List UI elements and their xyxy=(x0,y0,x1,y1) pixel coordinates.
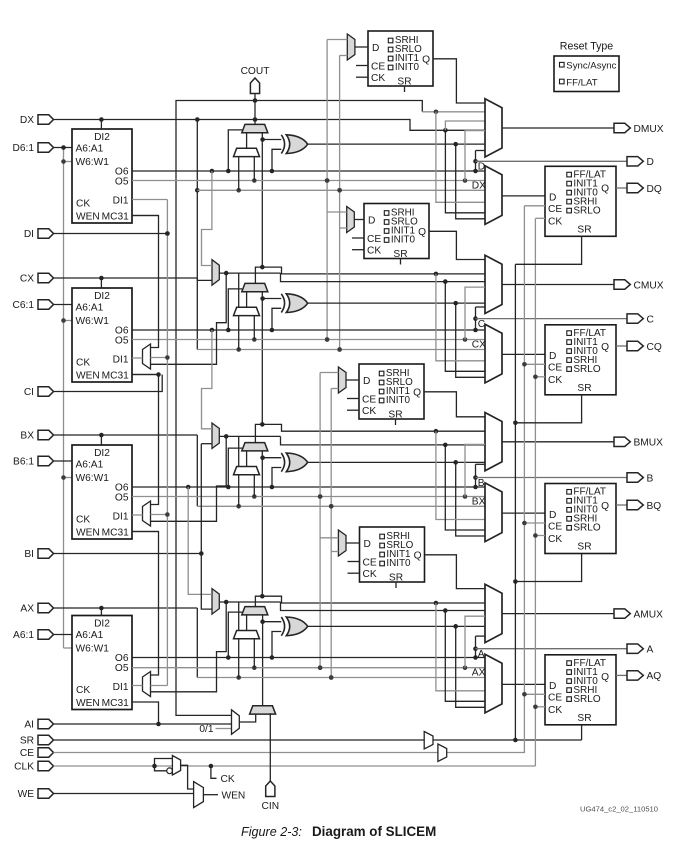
carry chain output pin COUT xyxy=(241,66,270,94)
wire FF5 C Q to output mux xyxy=(429,231,485,259)
svg-text:SRLO: SRLO xyxy=(573,523,600,534)
svg-text:D: D xyxy=(368,215,375,226)
carry chain input pin CIN xyxy=(262,781,280,812)
svg-text:W6:W1: W6:W1 xyxy=(76,316,110,327)
wire A output line xyxy=(476,648,628,650)
wire DX bypass drop xyxy=(195,120,212,281)
svg-text:D: D xyxy=(549,351,556,362)
svg-text:O5: O5 xyxy=(115,493,129,504)
svg-text:D: D xyxy=(549,510,556,521)
svg-text:CE: CE xyxy=(548,363,562,374)
svg-text:MC31: MC31 xyxy=(102,371,130,382)
svg-text:DI: DI xyxy=(24,229,34,240)
svg-text:AQ: AQ xyxy=(647,671,662,682)
svg-text:WEN: WEN xyxy=(76,528,100,539)
svg-text:SRLO: SRLO xyxy=(573,364,600,375)
wire FF5 C CK stub xyxy=(352,249,364,251)
svg-text:CK: CK xyxy=(76,358,90,369)
input pin AX xyxy=(20,603,53,614)
wire FF5 C mux input stubs xyxy=(327,212,347,228)
wire carry chain link 2 xyxy=(255,292,485,443)
flip-flop/latch C (FF/LAT INIT1 INIT0 SRHI SRLO) xyxy=(545,325,616,395)
output pin AQ xyxy=(627,671,661,683)
flip-flop FF5 A (SRHI SRLO INIT1 INIT0) xyxy=(360,527,425,583)
output pin D xyxy=(627,157,654,169)
svg-text:D6:1: D6:1 xyxy=(12,143,34,154)
wire XOR D output xyxy=(307,142,485,219)
svg-text:CK: CK xyxy=(363,569,377,580)
node carry-in tap to XOR A xyxy=(260,619,281,624)
svg-text:CX: CX xyxy=(472,340,486,351)
svg-text:Q: Q xyxy=(422,54,430,65)
svg-text:WEN: WEN xyxy=(222,791,246,802)
svg-text:CK: CK xyxy=(362,406,376,417)
wire MC31 cascade into DI1 mux C xyxy=(132,216,159,348)
svg-text:Q: Q xyxy=(601,672,609,683)
svg-text:SR: SR xyxy=(389,572,403,583)
node carry-in tap to XOR C xyxy=(260,296,281,301)
wire CX bypass row xyxy=(197,347,485,352)
wire O6 tap riser into write mux B xyxy=(202,328,215,429)
svg-text:CE: CE xyxy=(20,748,34,759)
wire FF5 A CK stub xyxy=(348,572,360,574)
wire carry staircase riser into FF-in mux A xyxy=(436,603,485,691)
svg-text:0/1: 0/1 xyxy=(199,724,213,735)
output pin A xyxy=(627,644,654,656)
wire SR riser xyxy=(513,236,581,740)
svg-text:CQ: CQ xyxy=(647,342,662,353)
wire write-select tap riser into FF-in mux C xyxy=(445,282,485,372)
wire MC31 output B xyxy=(132,531,159,533)
wire O6 D xyxy=(132,169,485,174)
svg-text:DI1: DI1 xyxy=(113,195,129,206)
wire CMUX output xyxy=(502,284,614,286)
wire MC31 cascade into DI1 mux B xyxy=(132,375,159,505)
mux output select BMUX xyxy=(485,413,502,471)
svg-text:SR: SR xyxy=(397,76,411,87)
wire AX bypass drop xyxy=(196,608,198,678)
svg-text:DX: DX xyxy=(472,180,486,191)
wire carry link CYINIT to MUXCY A xyxy=(262,615,264,706)
wire write-select tap riser into FF-in mux B xyxy=(445,445,485,530)
wire BX bypass row xyxy=(197,504,485,509)
wire W6:W1 shared write-address bus xyxy=(61,145,72,648)
svg-text:Q: Q xyxy=(413,387,421,398)
wire FF B Q to BQ xyxy=(616,504,627,506)
XOR gate D xyxy=(281,135,307,154)
node carry-in tap to XOR B xyxy=(260,455,281,460)
carry mux CYINIT xyxy=(250,706,276,714)
wire XOR A output xyxy=(307,624,485,707)
wire O5 riser into DMUX xyxy=(465,131,485,181)
wire D6:1 to LUT A6:A1 xyxy=(54,147,73,149)
wire FF5 C mux output xyxy=(354,219,364,221)
svg-text:W6:W1: W6:W1 xyxy=(76,643,110,654)
svg-text:A6:A1: A6:A1 xyxy=(76,630,104,641)
wire FF5 A SR stub xyxy=(395,582,397,588)
svg-text:CK: CK xyxy=(548,375,562,386)
carry mux MUXCY B xyxy=(242,443,268,451)
wire A6:1 to LUT A6:A1 xyxy=(54,634,73,636)
mux CE polarity xyxy=(438,744,447,762)
wire B output line xyxy=(476,477,628,479)
wire COUT riser into FF-in mux D xyxy=(436,112,485,203)
wire FF A Q to AQ xyxy=(616,674,627,676)
LUT C (DI2 / A6:A1 / W6:W1 / O6 O5 / CK DI1 / WEN MC31) xyxy=(72,288,132,382)
svg-text:INIT0: INIT0 xyxy=(386,558,411,569)
svg-text:AX: AX xyxy=(472,668,486,679)
wire O5 riser into CMUX xyxy=(465,287,485,339)
wire A output-loop riser into AMUX xyxy=(473,636,485,657)
svg-text:INIT0: INIT0 xyxy=(391,235,416,246)
svg-text:CK: CK xyxy=(76,199,90,210)
wire write mux B output xyxy=(151,434,486,521)
svg-text:A: A xyxy=(478,649,485,660)
svg-text:DQ: DQ xyxy=(647,184,662,195)
svg-text:WEN: WEN xyxy=(76,212,100,223)
output pin CQ xyxy=(627,341,662,353)
flip-flop/latch B (FF/LAT INIT1 INIT0 SRHI SRLO) xyxy=(545,484,616,554)
svg-text:CE: CE xyxy=(362,394,376,405)
input pin DX xyxy=(20,115,54,126)
wire FF5 D CK stub xyxy=(356,76,368,78)
wire D output line xyxy=(476,160,628,162)
svg-text:CK: CK xyxy=(367,245,381,256)
wire write mux A output xyxy=(151,600,486,692)
carry mux MUXCY A select xyxy=(228,612,242,657)
wire BX bypass drop xyxy=(196,435,198,506)
wire XOR C output xyxy=(307,301,485,377)
mux output select CMUX xyxy=(485,255,502,313)
wire O6 B xyxy=(132,485,485,490)
svg-text:SR: SR xyxy=(577,383,591,394)
node 0/1 constant xyxy=(199,724,231,735)
wire O5 riser into AMUX xyxy=(465,616,485,668)
wire C output line xyxy=(476,318,628,320)
svg-text:SRLO: SRLO xyxy=(573,205,600,216)
svg-text:D: D xyxy=(549,681,556,692)
input pin C6:1 xyxy=(12,300,53,311)
mux FF input select B xyxy=(485,483,502,542)
wire FF5 A Q to output mux xyxy=(425,555,486,589)
wire FF5 B SR stub xyxy=(395,419,397,425)
svg-text:Figure 2-3:: Figure 2-3: xyxy=(241,825,302,839)
wire FF5 C SR stub xyxy=(400,259,402,265)
svg-text:BQ: BQ xyxy=(647,501,662,512)
svg-text:CI: CI xyxy=(24,387,34,398)
wire write mux C output xyxy=(151,271,486,364)
wire CE bus xyxy=(54,751,525,753)
svg-text:Q: Q xyxy=(601,184,609,195)
svg-text:DX: DX xyxy=(20,115,34,126)
carry mux MUXCY C select xyxy=(228,289,242,330)
wire FF C Q to CQ xyxy=(616,345,627,347)
svg-text:C6:1: C6:1 xyxy=(12,300,34,311)
svg-text:Sync/Async: Sync/Async xyxy=(566,61,616,72)
wire XOR C input from O6 xyxy=(272,308,281,330)
svg-text:SR: SR xyxy=(577,542,591,553)
svg-text:Diagram of SLICEM: Diagram of SLICEM xyxy=(312,824,436,839)
svg-text:SR: SR xyxy=(577,224,591,235)
wire COUT tap left leg xyxy=(176,101,255,716)
input pin DI xyxy=(24,229,54,240)
LUT A (DI2 / A6:A1 / W6:W1 / O6 O5 / CK DI1 / WEN MC31) xyxy=(72,616,132,710)
wire BI line feeding write muxes B and A xyxy=(54,444,213,609)
svg-text:CIN: CIN xyxy=(262,801,280,812)
svg-text:CK: CK xyxy=(76,685,90,696)
svg-text:O5: O5 xyxy=(115,336,129,347)
wire CI line joining MC31 C cascade xyxy=(54,372,163,391)
svg-text:CE: CE xyxy=(371,61,385,72)
input pin CLK xyxy=(14,761,53,772)
wire FF5 B Q to output mux xyxy=(424,392,485,417)
svg-text:CK: CK xyxy=(221,774,235,785)
wire 0/1 mux output to CYINIT xyxy=(239,713,255,722)
svg-text:WE: WE xyxy=(18,789,35,800)
mux FF input select C xyxy=(485,324,502,383)
wire AMUX output xyxy=(502,613,614,615)
wire SR bus xyxy=(54,738,582,743)
svg-text:W6:W1: W6:W1 xyxy=(76,473,110,484)
wire DI shared riser to DI1 muxes xyxy=(151,200,170,686)
carry mux MUXCY D xyxy=(242,124,268,132)
svg-text:CK: CK xyxy=(548,217,562,228)
input pin CE xyxy=(20,748,54,759)
wire FF5 B CE stub xyxy=(347,398,359,400)
input pin B6:1 xyxy=(13,456,53,467)
carry DI mux C xyxy=(234,292,260,350)
input pin WE xyxy=(18,789,54,800)
LUT B (DI2 / A6:A1 / W6:W1 / O6 O5 / CK DI1 / WEN MC31) xyxy=(72,445,132,539)
svg-text:FF/LAT: FF/LAT xyxy=(566,77,597,88)
wire O6 tap riser into write mux C xyxy=(202,169,215,266)
svg-text:AI: AI xyxy=(24,720,34,731)
wire AX bypass row xyxy=(197,675,485,680)
svg-text:D: D xyxy=(363,376,370,387)
svg-text:BX: BX xyxy=(472,496,486,507)
mux output select AMUX xyxy=(485,584,502,642)
inverter bubble on CLK xyxy=(167,768,173,774)
svg-text:D: D xyxy=(364,539,371,550)
wire write-select tap riser into FF-in mux A xyxy=(445,611,485,702)
input pin A6:1 xyxy=(13,630,53,641)
wire CLK bus xyxy=(54,764,536,769)
wire O6 A xyxy=(132,655,485,660)
svg-text:CE: CE xyxy=(548,521,562,532)
svg-text:Q: Q xyxy=(601,501,609,512)
output pin B xyxy=(627,473,654,485)
input pin CI xyxy=(24,387,54,398)
mux write-data select C xyxy=(212,260,219,286)
mux CYINIT select 0/1 xyxy=(232,710,240,735)
wire BMUX output xyxy=(502,441,614,443)
wire FF C D input xyxy=(502,353,545,355)
wire FF D D input xyxy=(502,195,545,197)
flip-flop FF5 D (SRHI SRLO INIT1 INIT0) xyxy=(368,31,433,87)
mux write-data select B xyxy=(212,423,219,449)
mux output select DMUX xyxy=(485,99,502,157)
caption Figure 2-3 xyxy=(241,824,436,839)
wire XOR B output xyxy=(307,460,485,536)
wire MC31 output A xyxy=(132,702,161,726)
wire FF5 A mux input stubs xyxy=(320,538,338,552)
svg-text:DI2: DI2 xyxy=(94,132,110,143)
svg-text:WEN: WEN xyxy=(76,698,100,709)
wire FF5 D SR stub xyxy=(404,86,406,92)
output pin C xyxy=(627,314,654,326)
wire B output-loop riser into BMUX xyxy=(473,464,485,487)
svg-text:O5: O5 xyxy=(115,177,129,188)
wire FF D Q to DQ xyxy=(616,187,627,189)
wire carry chain link 3 xyxy=(255,451,485,607)
svg-text:W6:W1: W6:W1 xyxy=(76,157,110,168)
svg-text:CMUX: CMUX xyxy=(634,280,664,291)
flip-flop/latch D (FF/LAT INIT1 INIT0 SRHI SRLO) xyxy=(545,166,616,236)
wire DMUX output xyxy=(502,127,614,129)
svg-text:SR: SR xyxy=(393,249,407,260)
wire O5 B xyxy=(132,494,485,499)
wire O6 C xyxy=(132,328,485,333)
svg-text:BMUX: BMUX xyxy=(634,438,664,449)
XOR gate C xyxy=(281,294,307,313)
svg-text:B: B xyxy=(478,478,485,489)
wire FF5 B mux output xyxy=(346,379,359,381)
wire FF5 D/C input risers xyxy=(325,40,347,352)
svg-text:D: D xyxy=(647,157,654,168)
output pin CMUX xyxy=(614,280,664,292)
wire C6:1 to LUT A6:A1 xyxy=(54,304,73,306)
svg-text:C: C xyxy=(478,319,485,330)
output pin AMUX xyxy=(614,609,663,621)
input pin AI xyxy=(24,719,53,730)
wire XOR A input from O6 xyxy=(272,632,281,658)
svg-text:A6:A1: A6:A1 xyxy=(76,303,104,314)
wire XOR D input from O6 xyxy=(272,149,281,171)
wire carry staircase riser into FF-in mux B xyxy=(436,431,485,519)
wire carry chain link 1 xyxy=(255,133,485,284)
XOR gate B xyxy=(281,453,307,472)
wire carry spine COUT to MUXCY D xyxy=(253,94,258,125)
wire FF5 B/A input risers xyxy=(318,373,339,680)
XOR gate A xyxy=(281,617,307,636)
wire MC31 output C xyxy=(132,374,159,376)
svg-text:CE: CE xyxy=(363,557,377,568)
mux small FF D-input select D xyxy=(347,34,355,60)
mux small FF D-input select C xyxy=(347,207,355,233)
wire MC31 output D xyxy=(132,215,159,217)
svg-text:A6:A1: A6:A1 xyxy=(76,460,104,471)
mux FF input select A xyxy=(485,654,502,713)
wire C output-loop riser into CMUX xyxy=(473,307,485,330)
flip-flop FF5 C (SRHI SRLO INIT1 INIT0) xyxy=(364,204,429,260)
wire FF B D input xyxy=(502,512,545,514)
mux write-data select A xyxy=(212,589,219,615)
wire CLK tap to clock mux xyxy=(155,759,173,767)
wire DI1 mux output B xyxy=(132,514,143,516)
mux small FF D-input select A xyxy=(338,530,346,556)
svg-text:WEN: WEN xyxy=(76,371,100,382)
mux DI1 select A xyxy=(143,672,151,697)
wire BX line xyxy=(54,433,198,445)
wire FF5 A mux output xyxy=(346,542,360,544)
wire CE riser xyxy=(522,206,545,753)
carry mux MUXCY C xyxy=(242,283,268,291)
node CK bracket xyxy=(211,766,235,785)
svg-text:DI1: DI1 xyxy=(113,511,129,522)
wire O5 C xyxy=(132,337,485,342)
svg-text:Q: Q xyxy=(418,227,426,238)
wire carry staircase riser into FF-in mux C xyxy=(436,274,485,361)
svg-text:DMUX: DMUX xyxy=(634,124,664,135)
flip-flop/latch A (FF/LAT INIT1 INIT0 SRHI SRLO) xyxy=(545,655,616,725)
svg-text:CK: CK xyxy=(371,73,385,84)
svg-text:AMUX: AMUX xyxy=(634,609,664,620)
wire DX line xyxy=(54,117,486,132)
wire CX line xyxy=(54,276,198,288)
input pin CX xyxy=(20,273,54,284)
wire FF5 D CE stub xyxy=(356,65,368,67)
mux WEN xyxy=(194,782,204,808)
wire FF5 B CK stub xyxy=(347,409,359,411)
wire D output-loop riser into DMUX xyxy=(473,151,485,172)
svg-text:CK: CK xyxy=(548,534,562,545)
wire FF5 A CE stub xyxy=(348,561,360,563)
input pin BX xyxy=(20,430,53,441)
svg-text:O5: O5 xyxy=(115,663,129,674)
wire DI1 D from DI riser xyxy=(132,199,167,201)
mux FF input select D xyxy=(485,166,502,225)
input pin BI xyxy=(24,549,53,560)
svg-text:BX: BX xyxy=(20,431,34,442)
svg-text:DI1: DI1 xyxy=(113,354,129,365)
wire FF A D input xyxy=(502,683,545,685)
svg-text:CLK: CLK xyxy=(14,762,34,773)
legend Reset Type xyxy=(554,41,619,92)
input pin SR xyxy=(20,735,54,746)
svg-text:DI2: DI2 xyxy=(94,291,110,302)
svg-text:INIT0: INIT0 xyxy=(395,62,420,73)
svg-text:COUT: COUT xyxy=(241,66,270,77)
svg-text:CE: CE xyxy=(548,204,562,215)
svg-text:SR: SR xyxy=(20,736,34,747)
wire O6 tap riser into write mux A xyxy=(186,485,212,595)
svg-text:MC31: MC31 xyxy=(102,212,130,223)
svg-text:DI1: DI1 xyxy=(113,682,129,693)
svg-text:D: D xyxy=(478,162,485,173)
wire clock mux output to WEN mux xyxy=(181,765,194,789)
carry DI mux B xyxy=(234,451,260,506)
carry DI mux D xyxy=(234,133,260,191)
mux DI1 select B xyxy=(143,501,151,526)
wire DX bypass row xyxy=(197,188,485,193)
mux SR polarity xyxy=(424,732,433,750)
node carry-in tap to XOR D xyxy=(260,137,281,142)
svg-text:B6:1: B6:1 xyxy=(13,457,34,468)
svg-text:DI2: DI2 xyxy=(94,618,110,629)
carry DI mux A xyxy=(234,615,260,678)
wire AI line into CYINIT select mux xyxy=(54,723,232,725)
wire carry tap riser into FF-in mux D xyxy=(445,130,485,213)
svg-text:INIT0: INIT0 xyxy=(386,395,411,406)
output pin DQ xyxy=(627,183,662,195)
svg-text:Q: Q xyxy=(601,342,609,353)
wire DI1 mux output A xyxy=(132,685,143,687)
svg-text:CK: CK xyxy=(548,705,562,716)
wire AX line xyxy=(54,606,198,616)
input pin D6:1 xyxy=(12,143,53,154)
svg-text:A6:1: A6:1 xyxy=(13,630,34,641)
mux clock polarity CK xyxy=(172,756,180,776)
